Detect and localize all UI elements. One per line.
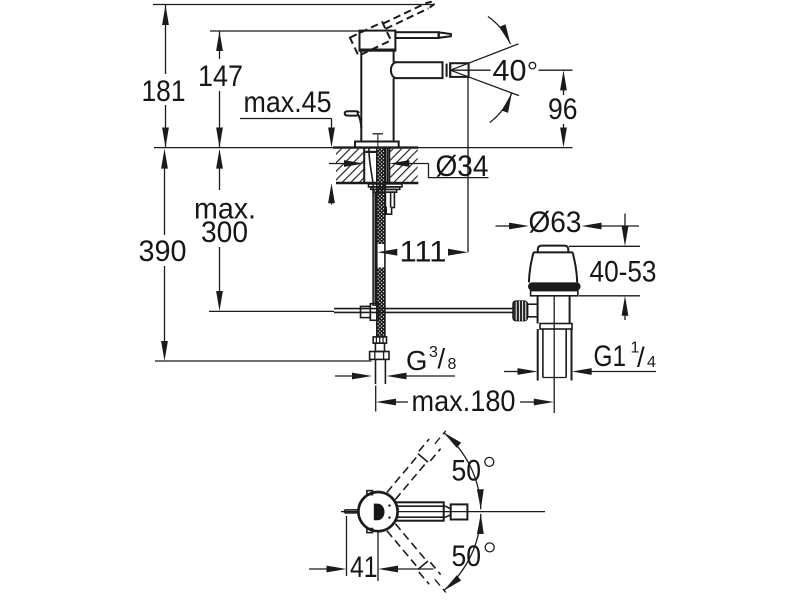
top view centerline horizontal (341, 511, 545, 513)
dashed handle raised position (350, 0, 440, 56)
svg-text:G: G (406, 345, 427, 376)
svg-text:4: 4 (647, 354, 656, 371)
dimension Ø63 (496, 206, 640, 239)
shank outer tube (364, 148, 389, 183)
spray cone lower arc arrow (490, 92, 515, 123)
spray cone upper line (450, 44, 518, 70)
top view escutcheon tab lower (367, 529, 373, 533)
svg-text:300: 300 (201, 216, 248, 249)
valve knob dome (533, 246, 573, 253)
dimension 111 (377, 236, 468, 269)
spout (394, 61, 444, 79)
svg-text:max.180: max.180 (412, 385, 516, 418)
svg-text:50: 50 (452, 455, 482, 488)
svg-text:Ø34: Ø34 (436, 150, 489, 183)
label 50 deg upper (452, 455, 494, 488)
extension line cap top level (210, 30, 361, 32)
valve side port (528, 304, 538, 317)
faucet lever (395, 32, 451, 38)
svg-text:8: 8 (448, 356, 457, 373)
dimension max.45 deck thickness (240, 86, 335, 205)
dimension Ø34 hole (329, 150, 489, 183)
pop-up rod curve through deck (369, 149, 375, 307)
linkage clamp fitting (361, 304, 379, 321)
extension line pop-up rod level (209, 310, 334, 312)
svg-text:40-53: 40-53 (590, 256, 657, 289)
faucet cap bottom band (360, 49, 396, 52)
aerator ball ring (447, 63, 451, 77)
svg-text:Ø63: Ø63 (529, 206, 582, 239)
top view pop-up lever stub (345, 510, 360, 513)
mounting deck hatching (336, 149, 418, 183)
valve knurled knob (513, 301, 528, 321)
spout root arc (391, 62, 397, 78)
faucet base flange (355, 142, 399, 148)
shank top packing (365, 151, 377, 153)
top view lever knob (451, 504, 468, 519)
label 40 deg (493, 55, 536, 88)
valve body (538, 296, 570, 324)
extension line valve flange bottom (579, 295, 640, 297)
svg-text:41: 41 (350, 551, 378, 584)
dashed lever rotated up 50 (385, 426, 451, 501)
horizontal pop-up linkage rod (334, 309, 513, 313)
top view faucet body circle (358, 492, 397, 531)
top view screw dots (388, 504, 390, 518)
svg-text:50: 50 (452, 540, 482, 573)
dimension 41 (309, 551, 434, 584)
G3/8 hose nut (370, 352, 389, 360)
dimension G1 1/4 arrows (504, 368, 656, 375)
dimension 40-53 (590, 214, 657, 321)
pop-up rod inside base (373, 134, 383, 148)
mounting nut (371, 187, 400, 192)
extension line valve dome top (569, 245, 640, 247)
pop-up lever knob (345, 111, 362, 128)
svg-text:G1: G1 (594, 340, 627, 373)
extension line top (handle tip level) (153, 4, 435, 6)
dimension max.300 (194, 149, 256, 311)
valve bell neck (529, 253, 577, 283)
svg-text:40: 40 (493, 55, 527, 88)
dimension G3/8 arrows (335, 373, 455, 380)
svg-text:147: 147 (198, 60, 243, 93)
extension line hose end level (155, 360, 372, 362)
valve center axis (553, 296, 555, 413)
dashed lever rotated down 50 (385, 522, 451, 597)
dimension max.180 (376, 385, 554, 418)
dimension 390 (139, 149, 187, 361)
top view cartridge D hole (374, 504, 385, 521)
valve flange underside (531, 291, 578, 296)
valve union nut (540, 324, 572, 330)
svg-text:max.45: max.45 (244, 86, 332, 119)
spray cone center line (450, 69, 572, 71)
spray cone upper arc arrow (488, 17, 514, 46)
valve tailpiece (538, 329, 572, 381)
top view lever shaft (395, 506, 451, 517)
dimension 181 (142, 5, 186, 148)
svg-text:96: 96 (548, 93, 578, 126)
svg-text:111: 111 (400, 236, 447, 269)
svg-text:181: 181 (142, 75, 186, 108)
svg-text:/: / (438, 343, 446, 374)
spray cone lower line (450, 70, 519, 95)
hose tail (376, 359, 386, 384)
faucet handle cap (360, 31, 396, 51)
valve flange ring (528, 282, 581, 290)
top view spout outline (395, 502, 444, 520)
hose hex adapter (373, 337, 386, 352)
label G 3/8 (406, 343, 457, 376)
label G1 1/4 (594, 340, 657, 374)
mounting washer (369, 184, 403, 187)
label 50 deg lower (452, 540, 495, 573)
extension line aerator tip (467, 78, 469, 253)
top view escutcheon tab upper (367, 491, 373, 495)
angle arc upper 50 (441, 430, 484, 509)
svg-text:/: / (637, 342, 645, 373)
aerator nozzle (450, 63, 468, 77)
deck top edge thick (333, 146, 418, 148)
extension line mounting deck top (154, 147, 573, 149)
pop-up rod guide tube (385, 192, 394, 214)
extension line pop-up stub (346, 516, 348, 576)
shank inner tube lines (385, 148, 387, 191)
faucet body (361, 51, 393, 142)
dimension 96 (548, 70, 578, 147)
extension line faucet axis bottom (377, 532, 379, 582)
deck bottom edge (336, 182, 418, 185)
svg-text:390: 390 (139, 235, 187, 268)
braided hose (377, 148, 385, 337)
dimension 147 (198, 31, 243, 148)
angle arc lower 50 (441, 514, 484, 593)
